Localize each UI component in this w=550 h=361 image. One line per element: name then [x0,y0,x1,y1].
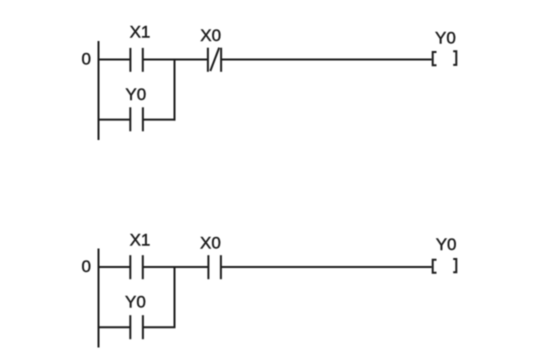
svg-text:Y0: Y0 [435,28,456,47]
contact X0 (rung 1, normally closed) [208,48,221,72]
output coil Y0 (rung 1) [433,51,457,65]
svg-text:X1: X1 [130,22,151,41]
wire: branch junction vertical (rung 1) [174,60,176,121]
svg-text:Y0: Y0 [125,85,146,104]
svg-text:Y0: Y0 [436,235,457,254]
rung 1 parallel branch wire: rail to contact Y0 [99,119,132,121]
contact X1 (rung 2, normally open) [130,255,143,279]
rung 1 wire: rail to contact X1 [99,59,132,61]
rung 2 wire: rail to contact X1 [99,266,132,268]
svg-text:0: 0 [82,50,91,69]
svg-text:0: 0 [82,257,91,276]
contact Y0 (rung 1 branch, normally open) [130,107,143,131]
wire: contact Y0 to junction (rung 1 branch) [143,119,176,121]
wire: X0 to output coil Y0 (rung 2) [221,266,432,268]
contact Y0 (rung 2 branch, normally open) [130,315,143,339]
wire: X1 to X0 with branch junction (rung 2) [143,266,209,268]
svg-text:X1: X1 [130,231,151,250]
svg-text:X0: X0 [200,234,221,253]
contact X0 (rung 2, normally open) [208,255,221,279]
wire: branch junction vertical (rung 2) [174,267,176,328]
svg-text:Y0: Y0 [125,293,146,312]
rung 1 left power rail [98,41,100,140]
rung 2 left power rail [98,249,100,348]
output coil Y0 (rung 2) [433,259,457,273]
svg-text:X0: X0 [200,26,221,45]
wire: X0 to output coil Y0 (rung 1) [221,59,432,61]
wire: contact Y0 to junction (rung 2 branch) [143,326,176,328]
contact X1 (rung 1, normally open) [130,48,142,72]
rung 2 parallel branch wire: rail to contact Y0 [99,326,132,328]
wire: X1 to X0 with branch junction [143,59,208,61]
